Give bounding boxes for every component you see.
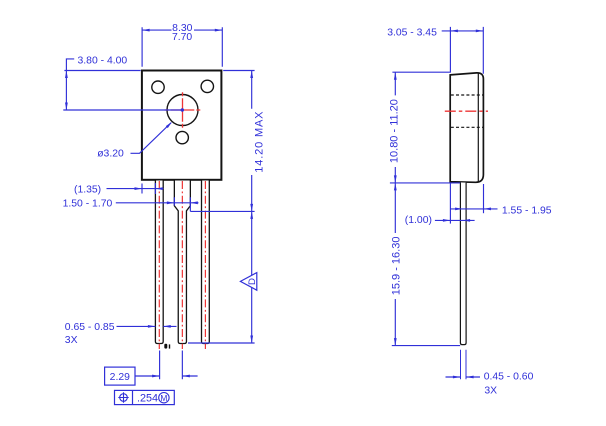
small hole bottom [176,131,188,143]
small hole top-left [152,81,164,93]
svg-text:0.65 - 0.85: 0.65 - 0.85 [65,322,115,333]
svg-text:10.80 - 11.20: 10.80 - 11.20 [389,99,401,163]
lead 2 (middle) outline with taper [174,181,190,344]
dimension 14.20 MAX connectors [188,71,255,344]
dimension 10.80-11.20 arrows [394,72,397,183]
dimension 1.50-1.70 line [116,202,199,204]
svg-text:14.20 MAX: 14.20 MAX [254,111,266,173]
hidden hole edge lower (dashed) [451,126,483,128]
svg-text:(1.35): (1.35) [74,184,101,195]
dimension (1.35) extension ticks [142,183,155,194]
hidden hole edge upper (dashed) [451,94,483,96]
dimension 3.80-4.00 vertical line [65,71,67,111]
small hole top-right [201,80,213,92]
lead 1 centerline (red) [158,181,160,349]
basic dimension 2.29 box [105,367,135,385]
mounting hole (big circle) [167,95,198,126]
dimension 14.20 MAX arrows [250,71,253,344]
dimension 1.50-1.70 extension lines [174,197,190,211]
svg-text:1.55 - 1.95: 1.55 - 1.95 [502,205,552,216]
dimension 10.80-11.20 connectors [390,72,460,183]
svg-text:3.80 - 4.00: 3.80 - 4.00 [78,56,128,67]
lead 2 centerline (red) [181,181,183,349]
hole center dot [181,108,184,111]
dimension 1.55-1.95 line [450,208,497,210]
reference line to hole center [63,109,182,111]
lead 3 centerline (red) [204,181,206,349]
dimension 14.20 MAX vertical line [251,71,253,344]
dimension 8.30 / 7.70 arrows [142,29,222,32]
leader line for hole diameter [131,123,172,154]
dimension 0.45-0.60 line [446,376,481,378]
svg-text:ø3.20: ø3.20 [97,149,124,160]
dimension (1.35) arrows [135,187,163,190]
dimension 3.80-4.00 leader bracket [66,59,74,71]
dimension 1.55-1.95 extension line [483,184,485,213]
dimension (1.00) arrows [443,219,470,222]
dimension 8.30 / 7.70 line [142,29,222,31]
dimension 10.80-11.20 vertical line [394,72,396,183]
svg-text:7.70: 7.70 [172,32,192,43]
dimension 1.50-1.70 arrows [167,201,198,204]
hole centerline side view (red) [445,110,488,112]
position tolerance symbol [118,392,128,402]
svg-text:.254: .254 [137,393,158,405]
svg-text:0.45 - 0.60: 0.45 - 0.60 [484,372,534,383]
dimension 1.55-1.95 arrows [455,208,491,211]
dimension (1.35) line [107,188,164,190]
body outline side view [450,73,483,182]
svg-text:3.05 - 3.45: 3.05 - 3.45 [387,27,437,38]
dimension 0.65-0.85 line [117,325,177,327]
svg-text:15.9 - 16.30: 15.9 - 16.30 [391,237,403,296]
modifier M circle [159,393,169,403]
pin number mark near lead 1 tip [164,344,170,349]
dimension 2.29 line [135,375,198,377]
svg-text:3X: 3X [65,335,78,346]
dimension 2.29 extension lines [160,351,183,380]
leader arrow at hole edge [166,122,172,128]
svg-text:3X: 3X [484,385,497,396]
svg-text:D: D [247,278,258,285]
body outline front view [142,71,222,180]
dimension 0.45-0.60 arrows [453,376,474,379]
svg-text:(1.00): (1.00) [405,215,432,226]
dimension (1.00) line [435,219,475,221]
dimension 0.65-0.85 arrows [148,325,171,328]
lead 1 outline [155,181,163,344]
dimension (1.00) extension line [449,184,451,224]
svg-text:M: M [160,393,167,403]
reference line body top (left) [64,70,140,72]
svg-text:2.29: 2.29 [110,372,130,383]
dimension 3.05-3.45 arrows [450,30,483,33]
svg-text:1.50 - 1.70: 1.50 - 1.70 [63,199,113,210]
dimension 3.05-3.45 line [442,30,483,32]
dimension 2.29 arrows [152,375,190,378]
datum D flag triangle [240,273,256,291]
dimension 15.9-16.30 arrows [394,183,397,346]
dimension 8.30 / 7.70 extension lines [142,27,222,67]
lead side view [460,182,466,344]
lead 3 outline [202,181,210,344]
dimension 3.05-3.45 extension lines [450,27,483,74]
lead extension lines below tip [461,350,467,380]
mold parting line [477,73,479,182]
hole centerline vertical (red) [182,92,184,128]
feature control frame divider [132,390,134,404]
dimension 15.9-16.30 bottom connector [392,345,460,347]
dimension 3.80-4.00 arrows [65,71,68,111]
hole centerline horizontal (red) [165,109,201,111]
dimension 15.9-16.30 vertical line [394,183,396,346]
feature control frame box [115,390,175,404]
